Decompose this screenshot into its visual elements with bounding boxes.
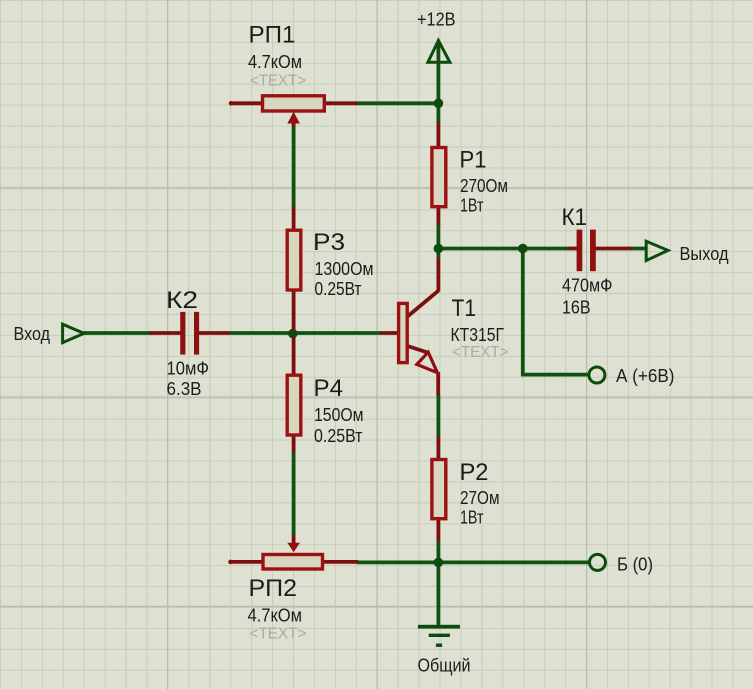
svg-text:+12В: +12В [417, 10, 456, 30]
svg-text:<TEXT>: <TEXT> [452, 344, 509, 361]
svg-text:27Ом: 27Ом [460, 488, 500, 508]
svg-text:РП2: РП2 [249, 575, 298, 602]
svg-text:1Вт: 1Вт [460, 196, 484, 216]
svg-text:16В: 16В [562, 298, 591, 318]
svg-text:270Ом: 270Ом [460, 176, 508, 196]
svg-text:0.25Вт: 0.25Вт [314, 426, 363, 446]
svg-text:4.7кОм: 4.7кОм [248, 52, 302, 72]
svg-text:Б (0): Б (0) [617, 555, 653, 575]
svg-text:470мФ: 470мФ [562, 276, 613, 296]
svg-text:0.25Вт: 0.25Вт [315, 279, 362, 299]
svg-text:<TEXT>: <TEXT> [250, 73, 306, 90]
svg-text:Выход: Выход [680, 244, 729, 264]
svg-text:1300Ом: 1300Ом [315, 259, 374, 279]
svg-text:6.3В: 6.3В [167, 379, 202, 399]
svg-text:1Вт: 1Вт [460, 508, 484, 528]
svg-text:А (+6В): А (+6В) [616, 366, 675, 386]
svg-text:10мФ: 10мФ [167, 359, 210, 379]
svg-text:Общий: Общий [418, 656, 471, 676]
svg-text:150Ом: 150Ом [314, 405, 364, 425]
svg-text:Вход: Вход [14, 324, 51, 344]
svg-text:Т1: Т1 [452, 295, 477, 322]
svg-text:Р3: Р3 [313, 229, 345, 256]
svg-text:<TEXT>: <TEXT> [250, 626, 307, 643]
svg-text:Р4: Р4 [314, 375, 344, 402]
svg-text:4.7кОм: 4.7кОм [248, 606, 303, 626]
svg-text:К2: К2 [166, 287, 198, 314]
svg-text:Р2: Р2 [460, 459, 489, 486]
svg-text:КТ315Г: КТ315Г [451, 325, 505, 345]
svg-text:Р1: Р1 [460, 147, 487, 174]
svg-text:К1: К1 [562, 204, 588, 231]
svg-text:РП1: РП1 [249, 22, 296, 49]
